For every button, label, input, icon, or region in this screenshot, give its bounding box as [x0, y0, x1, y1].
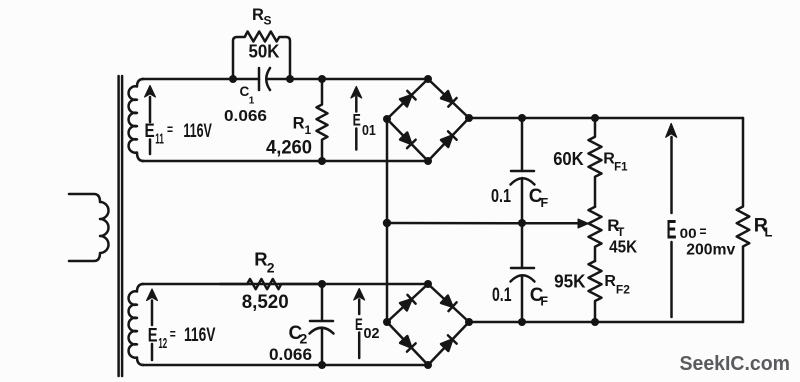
resistor R2 horizontal [220, 279, 322, 289]
arrow E01 [351, 87, 362, 150]
svg-text:E: E [355, 316, 363, 334]
svg-text:2: 2 [300, 330, 308, 346]
svg-text:8,520: 8,520 [242, 292, 289, 313]
svg-text:60K: 60K [553, 149, 584, 169]
arrow EI1 [145, 86, 156, 155]
arrow E02 [354, 289, 365, 359]
svg-text:E: E [667, 215, 677, 245]
wire bottom output rail [469, 321, 743, 324]
diode D2 top-right [440, 90, 456, 106]
svg-text:95K: 95K [554, 272, 586, 292]
wire lower loop top rail [142, 283, 428, 286]
wire bridge left corners vertical [386, 119, 389, 322]
svg-text:0.066: 0.066 [224, 108, 267, 125]
svg-text:=: = [167, 121, 173, 137]
svg-text:200mv: 200mv [686, 241, 735, 258]
node bridge1 left [383, 115, 391, 123]
capacitor C2 branch wire [321, 284, 324, 365]
wire lower loop bottom rail [142, 364, 428, 367]
svg-text:116V: 116V [183, 120, 212, 142]
node on top wire at RS left [229, 75, 237, 83]
node R2 right C2 top [318, 280, 326, 288]
svg-text:R: R [293, 115, 305, 133]
svg-text:F1: F1 [614, 162, 628, 174]
arrow E00 [666, 124, 677, 318]
diode D8 bottom-right [440, 335, 456, 351]
svg-text:SeekIC.com: SeekIC.com [680, 353, 791, 375]
transformer secondary winding S2 [129, 284, 144, 365]
diode D5 top-left [399, 295, 415, 311]
svg-text:0.1: 0.1 [491, 185, 511, 206]
wire upper loop top rail left of C1 [142, 78, 259, 81]
node bridge1 bottom [424, 157, 432, 165]
diode D4 bottom-right [440, 131, 456, 147]
node bottom rail RF2 [591, 318, 599, 326]
node R1 top [318, 75, 326, 83]
svg-text:0.066: 0.066 [269, 345, 312, 364]
diode bridge 2 edges [387, 284, 469, 365]
capacitor CF bottom plates [511, 268, 535, 282]
node bridge2 bottom [424, 361, 432, 369]
node bottom rail CF [518, 318, 526, 326]
node bridge2 top [424, 280, 432, 288]
capacitor CF top plates [511, 171, 535, 185]
svg-text:02: 02 [364, 325, 380, 342]
node top rail RF1 [591, 114, 599, 122]
svg-text:E: E [145, 120, 155, 142]
transformer core [119, 76, 123, 376]
resistor RF1 vertical [589, 118, 602, 207]
svg-text:1: 1 [249, 95, 255, 106]
svg-text:S: S [264, 14, 272, 28]
node bridge2 right [465, 318, 473, 326]
diode D7 bottom-left [399, 335, 415, 351]
svg-text:116V: 116V [184, 324, 216, 346]
svg-text:E: E [353, 112, 361, 130]
svg-text:01: 01 [362, 122, 376, 139]
node C2 bottom [318, 361, 326, 369]
svg-text:L: L [765, 225, 773, 240]
resistor RL vertical [737, 118, 750, 322]
node top rail CF [518, 114, 526, 122]
capacitor C2 plates [310, 321, 334, 334]
wire upper loop top rail right of C1 [267, 78, 429, 81]
svg-text:E: E [148, 325, 158, 347]
svg-text:R: R [604, 273, 616, 290]
svg-text:45K: 45K [609, 237, 637, 257]
diode bridge 1 edges [387, 79, 469, 161]
svg-text:=: = [700, 223, 707, 239]
potentiometer RT vertical [589, 207, 602, 261]
diode D1 top-left [399, 91, 415, 107]
svg-text:12: 12 [158, 335, 167, 352]
node middle rail left [383, 219, 391, 227]
node bridge1 top [424, 75, 432, 83]
diode D3 bottom-left [399, 132, 415, 148]
node R1 bottom [318, 157, 326, 165]
transformer primary winding [69, 194, 109, 261]
resistor RF2 vertical [589, 261, 602, 322]
diode D6 top-right [440, 295, 456, 311]
svg-text:00: 00 [680, 225, 697, 241]
node middle rail CF [518, 219, 526, 227]
node on top wire at RS right [286, 75, 294, 83]
capacitor CF bottom branch wire [521, 223, 524, 322]
svg-text:F2: F2 [616, 282, 630, 296]
svg-text:11: 11 [155, 131, 164, 148]
capacitor CF top branch wire [521, 118, 524, 223]
RT wiper arrowhead [578, 219, 589, 228]
wire top output rail [469, 117, 743, 120]
svg-text:F: F [541, 196, 549, 210]
wire upper loop bottom rail [142, 160, 428, 163]
svg-text:F: F [540, 295, 548, 309]
svg-text:R: R [254, 249, 267, 270]
svg-text:=: = [170, 326, 176, 342]
capacitor C1 plates [259, 68, 270, 90]
svg-text:4,260: 4,260 [266, 137, 312, 158]
svg-text:2: 2 [267, 259, 275, 275]
svg-text:0.1: 0.1 [492, 285, 512, 306]
node bridge2 left [383, 318, 391, 326]
svg-text:R: R [252, 6, 264, 24]
transformer secondary winding S1 [129, 79, 144, 161]
wire middle rail to RT wiper [387, 222, 579, 225]
node bridge1 right [465, 114, 473, 122]
svg-text:1: 1 [305, 123, 312, 137]
resistor RS 50K bypass loop [233, 32, 290, 80]
svg-text:50K: 50K [249, 41, 280, 61]
arrow EI2 [147, 289, 158, 360]
resistor R1 vertical [317, 79, 328, 161]
